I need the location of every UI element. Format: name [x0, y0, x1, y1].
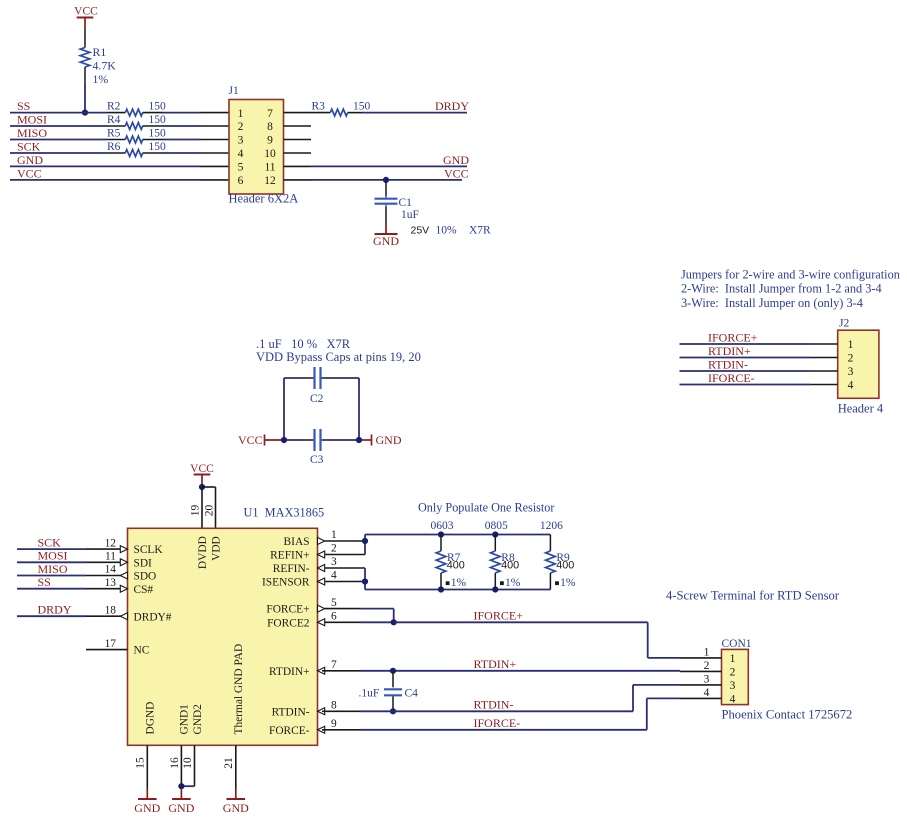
U1 pin 7 arrow — [318, 667, 325, 674]
U1 pin 15 lead — [146, 745, 148, 788]
svg-text:C2: C2 — [310, 393, 324, 405]
wire R4 to J1 pin 2 — [162, 125, 201, 127]
U1 pin 2 stub — [325, 554, 365, 556]
resistor R6 150 — [107, 152, 125, 154]
svg-text:.1uF: .1uF — [359, 688, 380, 700]
junction C4 bottom — [390, 708, 396, 714]
junction on SS net — [82, 110, 88, 116]
U1 pin 11 stub — [86, 561, 121, 563]
U1 pin 3 stub — [325, 567, 365, 569]
svg-text:Thermal GND PAD: Thermal GND PAD — [233, 644, 245, 735]
J1 pin 5 stub — [201, 165, 230, 167]
ground symbol pin 16 — [180, 789, 182, 800]
wire R1 to SS net — [84, 85, 86, 113]
svg-text:6: 6 — [238, 175, 244, 187]
svg-text:16: 16 — [169, 757, 181, 769]
U1 pin 9 arrow — [318, 726, 325, 733]
svg-text:3: 3 — [238, 135, 244, 147]
resistor R9 400 — [549, 535, 551, 552]
U1 pin 7 stub — [322, 670, 360, 672]
svg-text:DRDY: DRDY — [435, 99, 469, 113]
svg-text:11: 11 — [105, 551, 116, 563]
wire bottom rail — [365, 589, 550, 591]
junction C3 right — [356, 437, 362, 443]
svg-text:Jumpers for 2-wire and 3-wire: Jumpers for 2-wire and 3-wire configurat… — [681, 268, 900, 282]
svg-text:150: 150 — [149, 100, 167, 112]
U1 pin 13 arrow — [120, 585, 127, 592]
svg-text:R1: R1 — [93, 45, 107, 59]
capacitor C2 — [313, 367, 315, 389]
svg-text:0805: 0805 — [485, 520, 508, 532]
U1 pin 9 stub — [322, 729, 360, 731]
wire SCK to U1 — [17, 548, 86, 550]
U1 pin 10 lead — [194, 745, 196, 786]
svg-text:4: 4 — [704, 687, 710, 699]
J1 pin 3 stub — [201, 139, 230, 141]
CON1 pin 3 stub — [680, 684, 722, 686]
resistor R2 150 — [107, 112, 125, 114]
svg-text:6: 6 — [331, 611, 337, 623]
svg-text:20: 20 — [203, 505, 215, 517]
svg-text:GND: GND — [17, 153, 43, 167]
resistor R3 150 — [311, 112, 330, 114]
junction pin6/IFORCE+ — [391, 619, 397, 625]
svg-text:SDI: SDI — [134, 557, 153, 569]
svg-text:VDD: VDD — [210, 536, 222, 561]
CON1 pin 2 stub — [680, 670, 722, 672]
CON1 pin 1 stub — [680, 657, 722, 659]
svg-text:MISO: MISO — [38, 562, 68, 576]
svg-text:IFORCE-: IFORCE- — [708, 371, 755, 385]
svg-text:VCC: VCC — [444, 166, 469, 180]
svg-text:SCK: SCK — [17, 139, 41, 153]
J1 pin 6 stub — [201, 179, 230, 181]
svg-text:FORCE+: FORCE+ — [266, 604, 309, 616]
svg-text:5: 5 — [238, 162, 244, 174]
svg-text:8: 8 — [267, 121, 273, 133]
wire R5 to J1 pin 3 — [162, 139, 201, 141]
junction pin 4 — [362, 578, 368, 584]
wire VCC to C1 — [385, 181, 387, 196]
svg-text:14: 14 — [105, 564, 117, 576]
U1 pin 4 stub — [325, 581, 365, 583]
svg-text:10: 10 — [264, 148, 276, 160]
U1 pin 1 stub — [325, 540, 365, 542]
svg-text:150: 150 — [149, 114, 167, 126]
svg-text:1: 1 — [730, 653, 736, 665]
wire C2 top right — [329, 377, 359, 379]
junction at C1 — [383, 177, 389, 183]
svg-text:R5: R5 — [107, 127, 121, 139]
wire pin3/pin4 to bottom rail — [364, 568, 366, 590]
CON1 pin 4 stub — [680, 697, 722, 699]
svg-text:GND1: GND1 — [178, 704, 190, 735]
U1 pin 1 arrow — [318, 538, 325, 545]
svg-text:1: 1 — [704, 646, 710, 658]
svg-text:400: 400 — [501, 559, 519, 571]
wire C3 right — [329, 439, 359, 441]
junction R8 top — [492, 531, 498, 537]
svg-text:1%: 1% — [93, 72, 109, 86]
svg-text:1%: 1% — [560, 577, 576, 589]
svg-text:C3: C3 — [310, 454, 324, 466]
svg-text:CS#: CS# — [134, 584, 154, 596]
resistor R1 — [80, 48, 90, 68]
capacitor C1 — [375, 198, 398, 200]
svg-text:GND: GND — [134, 801, 160, 815]
svg-text:MOSI: MOSI — [17, 112, 47, 126]
tolerance label .1% for R7 — [446, 581, 450, 585]
svg-text:RTDIN+: RTDIN+ — [474, 657, 517, 671]
wire RTDIN+ to J2 pin 2 — [680, 357, 811, 359]
svg-text:SCK: SCK — [38, 536, 62, 550]
svg-text:9: 9 — [331, 718, 337, 730]
wire IFORCE+ to J2 pin 1 — [680, 343, 811, 345]
svg-text:11: 11 — [264, 162, 275, 174]
wire pin5 jog — [360, 608, 394, 610]
svg-text:REFIN+: REFIN+ — [270, 550, 309, 562]
svg-text:4: 4 — [848, 380, 854, 392]
svg-text:SDO: SDO — [134, 571, 157, 583]
wire MOSI to U1 — [17, 561, 86, 563]
U1 pin 20 lead — [202, 486, 216, 488]
svg-text:IFORCE-: IFORCE- — [474, 716, 521, 730]
svg-text:VCC: VCC — [17, 166, 42, 180]
J1 pin 4 stub — [201, 152, 230, 154]
svg-text:RTDIN+: RTDIN+ — [708, 344, 751, 358]
svg-text:VDD Bypass Caps at pins 19, 20: VDD Bypass Caps at pins 19, 20 — [256, 350, 421, 364]
J1 pin 11 stub — [284, 165, 312, 167]
svg-text:DRDY: DRDY — [38, 603, 72, 617]
ground symbol below C1 — [385, 224, 387, 235]
svg-text:FORCE-: FORCE- — [269, 725, 310, 737]
junction pin16/pin10 — [178, 783, 184, 789]
resistor R7 400 — [440, 535, 442, 552]
svg-text:1: 1 — [331, 529, 337, 541]
svg-text:3-Wire: Install Jumper on (on: 3-Wire: Install Jumper on (only) 3-4 — [681, 296, 863, 310]
svg-text:GND: GND — [376, 433, 402, 447]
svg-text:2: 2 — [704, 660, 710, 672]
svg-text:17: 17 — [105, 638, 117, 650]
svg-text:NC: NC — [134, 645, 150, 657]
wire R2 to J1 pin 1 — [162, 112, 201, 114]
capacitor C4 — [392, 672, 394, 687]
svg-text:VCC: VCC — [238, 433, 263, 447]
IC U1 MAX31865 body — [128, 528, 318, 745]
U1 pin 4 arrow — [318, 578, 325, 585]
svg-text:18: 18 — [105, 604, 117, 616]
wire VCC to R1 — [84, 27, 86, 48]
U1 pin 18 arrow — [120, 613, 127, 620]
svg-text:400: 400 — [447, 559, 465, 571]
svg-text:4.7K: 4.7K — [93, 59, 117, 73]
svg-text:REFIN-: REFIN- — [273, 563, 310, 575]
junction pin 1 — [362, 538, 368, 544]
ground symbol pin 15 — [146, 789, 148, 800]
svg-text:150: 150 — [353, 100, 371, 112]
wire RTDIN- to CON1 pin3 — [360, 710, 633, 712]
J1 pin 2 stub — [201, 125, 230, 127]
svg-text:RTDIN-: RTDIN- — [708, 357, 748, 371]
wire MISO to U1 — [17, 575, 86, 577]
wire pin1/pin2 to top rail — [364, 535, 366, 555]
svg-text:1%: 1% — [451, 577, 467, 589]
svg-text:RTDIN-: RTDIN- — [474, 698, 514, 712]
wire J1.12 to VCC label — [311, 179, 462, 181]
wire J1.11 to GND label — [311, 165, 467, 167]
svg-text:C1: C1 — [399, 197, 413, 209]
svg-text:R6: R6 — [107, 141, 121, 153]
svg-text:9: 9 — [267, 135, 273, 147]
wire GND to J1 — [10, 165, 201, 167]
svg-text:C4: C4 — [405, 688, 419, 700]
junction VCC pins 19/20 — [199, 484, 205, 490]
svg-text:MISO: MISO — [17, 126, 47, 140]
svg-text:BIAS: BIAS — [284, 536, 310, 548]
svg-text:1206: 1206 — [540, 520, 563, 532]
svg-text:15: 15 — [135, 757, 147, 769]
wire C2 loop right vertical — [358, 378, 360, 440]
wire MISO to R5 — [10, 139, 107, 141]
svg-text:1: 1 — [238, 108, 244, 120]
U1 pin 8 arrow — [318, 708, 325, 715]
svg-text:150: 150 — [149, 127, 167, 139]
svg-text:7: 7 — [267, 108, 273, 120]
svg-text:21: 21 — [223, 757, 235, 769]
svg-text:10%: 10% — [436, 225, 458, 237]
svg-text:DVDD: DVDD — [197, 536, 209, 569]
J1 pin 10 stub (n.c.) — [284, 152, 312, 154]
svg-text:4: 4 — [331, 570, 337, 582]
svg-text:VCC: VCC — [190, 463, 214, 475]
svg-text:J1: J1 — [229, 85, 239, 97]
U1 pin 18 stub — [86, 615, 121, 617]
wire C2 top left — [284, 377, 306, 379]
svg-text:DRDY#: DRDY# — [134, 611, 172, 623]
wire C1 to GND — [385, 207, 387, 224]
wire MOSI to R4 — [10, 125, 107, 127]
svg-text:0603: 0603 — [431, 520, 454, 532]
svg-text:MOSI: MOSI — [38, 549, 68, 563]
U1 pin 5 stub — [325, 608, 360, 610]
J2 pin 1 stub — [810, 343, 838, 345]
U1 pin 19 lead — [201, 487, 203, 528]
svg-text:SS: SS — [38, 575, 51, 589]
U1 pin 14 stub — [86, 575, 121, 577]
U1 pin 2 arrow — [318, 551, 325, 558]
wire SS to R2 — [10, 112, 107, 114]
svg-text:4: 4 — [238, 148, 244, 160]
svg-text:2: 2 — [848, 353, 854, 365]
svg-text:FORCE2: FORCE2 — [267, 617, 310, 629]
J1 pin 12 stub — [284, 179, 312, 181]
svg-text:RTDIN+: RTDIN+ — [269, 666, 310, 678]
U1 pin 17 stub (NC) — [86, 649, 128, 651]
svg-text:25V: 25V — [411, 225, 430, 237]
wire SS to U1 — [17, 588, 86, 590]
capacitor C3 — [313, 429, 315, 451]
U1 pin 14 arrow — [120, 572, 127, 579]
svg-text:2-Wire: Install Jumper from 1: 2-Wire: Install Jumper from 1-2 and 3-4 — [681, 282, 882, 296]
svg-text:SS: SS — [17, 99, 30, 113]
junction R7 top — [438, 531, 444, 537]
wire IFORCE- to CON1 pin4 — [360, 729, 647, 731]
resistor R4 150 — [107, 125, 125, 127]
svg-text:GND2: GND2 — [192, 704, 204, 735]
svg-text:1uF: 1uF — [401, 209, 419, 221]
svg-text:U1 MAX31865: U1 MAX31865 — [244, 506, 325, 520]
svg-text:3: 3 — [331, 556, 337, 568]
U1 pin 8 stub — [322, 710, 360, 712]
wire R3 to DRDY — [362, 112, 467, 114]
svg-text:2: 2 — [331, 543, 337, 555]
J1 pin 1 stub — [201, 112, 230, 114]
svg-text:CON1: CON1 — [722, 638, 752, 650]
J1 pin 9 stub (n.c.) — [284, 139, 312, 141]
wire IFORCE- to J2 pin 4 — [680, 384, 811, 386]
svg-text:400: 400 — [556, 559, 574, 571]
wire pin6 segment — [360, 621, 394, 623]
svg-text:Header 6X2A: Header 6X2A — [229, 192, 299, 206]
svg-text:3: 3 — [704, 673, 710, 685]
U1 pin 3 arrow — [318, 565, 325, 572]
svg-text:Header 4: Header 4 — [838, 402, 884, 416]
svg-text:.1 uF 10 % X7R: .1 uF 10 % X7R — [256, 337, 351, 351]
svg-text:Phoenix Contact 1725672: Phoenix Contact 1725672 — [722, 708, 853, 722]
svg-text:GND: GND — [373, 234, 399, 248]
svg-text:GND: GND — [223, 801, 249, 815]
connector CON1 Phoenix Contact — [722, 649, 749, 704]
junction C3 left — [281, 437, 287, 443]
svg-text:J2: J2 — [839, 318, 849, 330]
U1 pin 16 lead — [180, 745, 182, 788]
wire RTDIN- to J2 pin 3 — [680, 370, 811, 372]
wire C2 loop left vertical — [283, 378, 285, 440]
J1 pin 7 stub — [284, 112, 312, 114]
junction C4 top — [390, 668, 396, 674]
svg-text:GND: GND — [168, 801, 194, 815]
svg-text:ISENSOR: ISENSOR — [262, 577, 310, 589]
port GND (bypass) — [371, 435, 373, 446]
svg-text:R2: R2 — [107, 100, 121, 112]
svg-text:7: 7 — [331, 659, 337, 671]
svg-text:4: 4 — [730, 694, 736, 706]
wire top rail — [365, 534, 550, 536]
U1 pin 12 stub — [86, 548, 121, 550]
svg-text:10: 10 — [182, 757, 194, 769]
U1 pin 6 stub — [325, 621, 360, 623]
svg-text:2: 2 — [730, 667, 736, 679]
wire VCC to pins 19/20 — [201, 484, 203, 487]
wire bottom rail VCC-GND — [284, 439, 306, 441]
connector J1 Header 6X2A — [229, 100, 284, 195]
J1 pin 8 stub (n.c.) — [284, 125, 312, 127]
resistor R8 400 — [494, 535, 496, 552]
wire pin10 to pin16 net — [181, 785, 194, 787]
J2 pin 3 stub — [810, 370, 838, 372]
svg-text:12: 12 — [264, 175, 276, 187]
svg-text:VCC: VCC — [74, 6, 98, 18]
svg-text:8: 8 — [331, 700, 337, 712]
svg-text:2: 2 — [238, 121, 244, 133]
svg-text:3: 3 — [730, 680, 736, 692]
U1 pin 21 lead — [235, 745, 237, 788]
svg-text:Only Populate One Resistor: Only Populate One Resistor — [418, 501, 554, 515]
svg-text:R3: R3 — [312, 100, 326, 112]
svg-text:SCLK: SCLK — [134, 544, 164, 556]
tolerance label .1% for R8 — [500, 581, 504, 585]
wire VCC to J1 — [10, 179, 201, 181]
svg-text:1: 1 — [848, 339, 854, 351]
svg-text:12: 12 — [105, 537, 117, 549]
svg-text:19: 19 — [190, 505, 202, 517]
J2 pin 4 stub — [810, 384, 838, 386]
U1 pin 11 arrow — [120, 559, 127, 566]
svg-text:13: 13 — [105, 577, 117, 589]
resistor R5 150 — [107, 139, 125, 141]
ground symbol pin 21 — [235, 789, 237, 800]
svg-text:RTDIN-: RTDIN- — [272, 706, 310, 718]
wire RTDIN+ to CON1 pin2 — [360, 670, 680, 672]
svg-text:1%: 1% — [505, 577, 521, 589]
svg-text:5: 5 — [331, 597, 337, 609]
wire IFORCE+ to CON1 pin1 — [394, 621, 648, 623]
U1 pin 12 arrow — [120, 546, 127, 553]
U1 pin 6 arrow — [318, 619, 325, 626]
svg-text:GND: GND — [443, 153, 469, 167]
junction R7 bottom — [438, 586, 444, 592]
connector J2 Header 4 — [838, 330, 879, 398]
svg-text:150: 150 — [149, 141, 167, 153]
U1 pin 13 stub — [86, 588, 121, 590]
svg-text:IFORCE+: IFORCE+ — [708, 330, 758, 344]
svg-text:R4: R4 — [107, 114, 121, 126]
svg-text:DGND: DGND — [145, 702, 157, 735]
tolerance label .1% for R9 — [555, 581, 559, 585]
svg-text:X7R: X7R — [469, 225, 491, 237]
svg-text:3: 3 — [848, 366, 854, 378]
J2 pin 2 stub — [810, 357, 838, 359]
wire DRDY to U1 — [17, 615, 86, 617]
wire R6 to J1 pin 4 — [162, 152, 201, 154]
junction R8 bottom — [492, 586, 498, 592]
wire SCK to R6 — [10, 152, 107, 154]
svg-text:4-Screw Terminal for RTD Senso: 4-Screw Terminal for RTD Sensor — [666, 589, 840, 603]
svg-text:IFORCE+: IFORCE+ — [474, 609, 524, 623]
U1 pin 5 arrow — [318, 605, 325, 612]
